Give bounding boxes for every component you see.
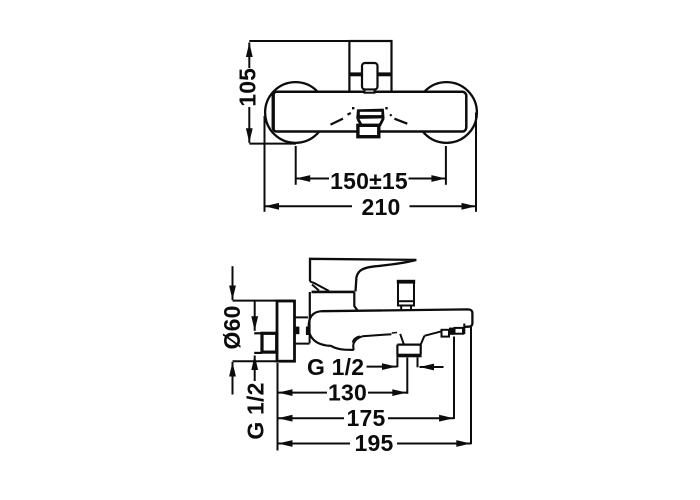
dim 195 line left segment [278,443,350,445]
knob stem [401,306,411,311]
spout notch arc inner [353,336,360,342]
dim 175 line right segment [388,417,454,419]
bracket clamp bar left [349,72,362,76]
left escutcheon circle (front view) [265,82,326,143]
cartridge in bracket [362,63,378,90]
dim 150 left extension line [295,146,297,185]
dim 105 line upper segment with arrow [248,43,250,69]
spout notch arc outer [353,336,362,350]
dim 150 right extension line [445,146,447,185]
centerline dash [392,332,397,335]
cartridge housing left edge [309,292,311,319]
spout underside diagonal [362,334,391,336]
dim 130 line left segment [278,392,327,394]
outlet flare left [400,334,404,345]
svg-text:105: 105 [235,68,261,107]
wall union bracket (top) [349,41,391,92]
spout front top bar (filled with white slot) [356,109,384,119]
svg-text:150±15: 150±15 [330,168,408,194]
spout front left side [358,119,362,126]
right escutcheon circle (front view) [416,82,477,143]
aerator box B solid [449,328,455,335]
dim Ø60 lower arrow [232,362,234,395]
dim G1/2 arrow to outlet right [420,366,444,368]
dim G1/2 left leader upper [254,301,256,331]
svg-text:130: 130 [328,380,367,406]
svg-text:210: 210 [362,194,401,220]
dim 150 line right segment [409,178,446,180]
dim Ø60 bottom extension line [233,360,278,362]
dim 105 bottom extension line [249,143,296,145]
spout front right side [380,118,384,126]
cartridge housing right edge [354,292,357,311]
outlet stub right side [417,357,419,367]
supply union square [262,333,277,352]
svg-text:Ø60: Ø60 [219,305,245,349]
svg-text:175: 175 [347,405,386,431]
handle swing dash right [390,114,407,123]
handle swing dash left [331,113,351,125]
dim G1/2 left leader lower [254,356,256,382]
dim 105 top extension line [249,40,349,42]
dim 210 line right segment [410,205,477,207]
dim G1/2 arrow to outlet left [367,366,397,368]
bracket clamp bar right [378,72,392,76]
tick dot left [352,107,354,109]
shower outlet block [397,345,420,354]
handle notch line [312,285,319,291]
supply union top extension [254,332,262,334]
cartridge housing top line [312,291,355,294]
aerator box A [442,330,450,337]
dim 195 right extension line [470,327,472,445]
supply union flange line [254,352,262,354]
dim 150 line left segment [296,178,329,180]
handle lever (side view) [310,259,416,292]
shower outlet bottom band [396,354,421,358]
dim 175 line left segment [278,417,344,419]
dim Ø60 upper arrow [232,266,234,300]
dim 210 left extension line [264,116,266,212]
cartridge notch [365,90,375,93]
spout front nozzle [358,125,379,136]
outlet stub left side [396,357,398,367]
svg-text:G 1/2: G 1/2 [307,354,364,380]
body side: top edge and right tip [322,309,473,327]
connector screw mark left [296,327,300,335]
svg-text:195: 195 [355,430,394,456]
spout underside right of outlet [424,331,441,336]
handle bottom step [310,282,329,292]
body side: nose (left end) [309,311,354,350]
tick dot right [385,107,387,109]
faucet body (front view) [273,92,467,132]
svg-text:G 1/2: G 1/2 [243,382,269,439]
dim 210 line left segment [265,205,353,207]
dim 175 right extension line [453,337,455,420]
dim 130 extension (outlet centre) [406,358,408,394]
bottom dims left extension line [277,363,279,451]
connector screw mark right [306,327,310,335]
connector between plate and body [295,317,310,343]
body left end cap double line [273,93,275,130]
dim 195 line right segment [397,443,471,445]
tip inner tick [463,324,465,335]
diverter knob [398,282,414,306]
knob inner line [398,300,414,302]
wall plate (side view) [277,301,295,361]
dim 105 line lower segment with arrow [248,107,250,143]
dim Ø60 top extension line [233,300,295,302]
outlet flare right [421,336,425,345]
knob top band [397,280,415,284]
dim 210 right extension line [475,113,477,212]
dim 130 line right segment [368,392,407,394]
aerator box C [455,328,464,334]
